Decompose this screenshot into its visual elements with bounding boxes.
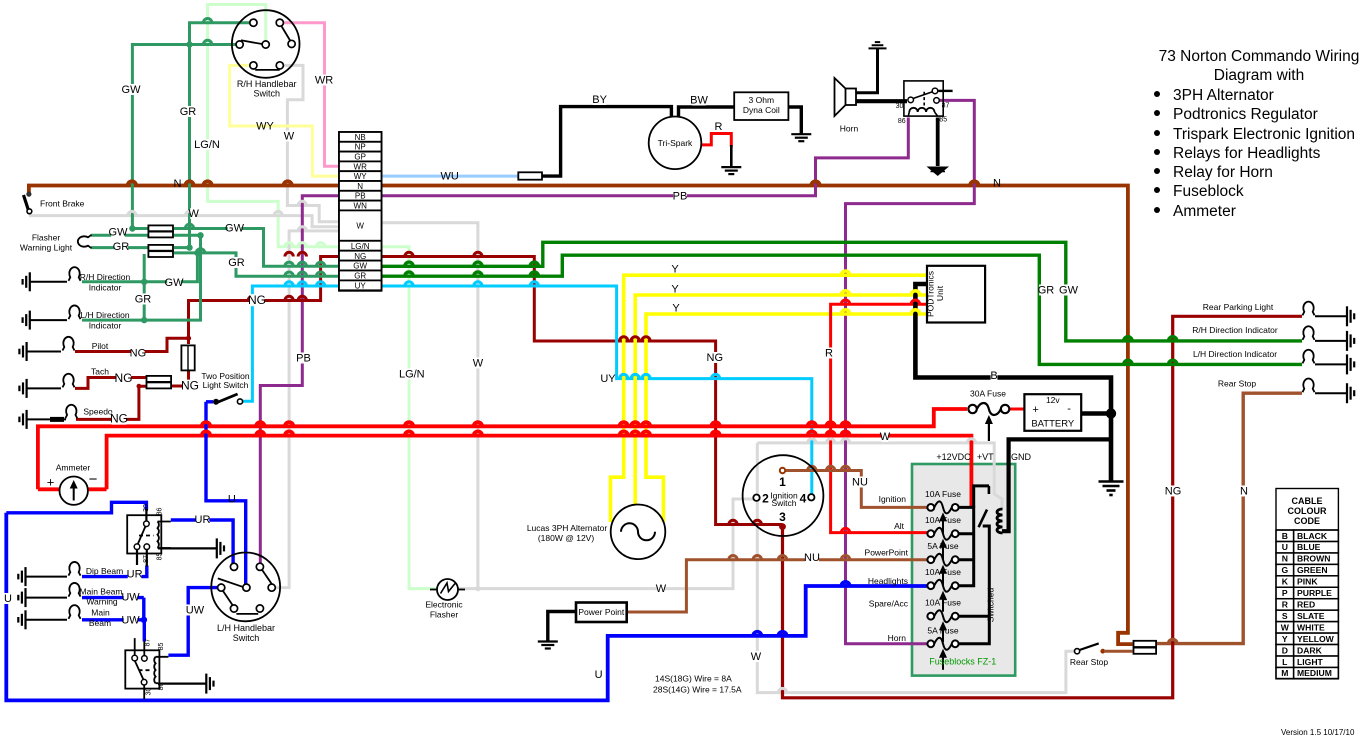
wire GW out to block (174, 229, 339, 267)
svg-text:2: 2 (762, 492, 769, 506)
coil 3 Ohm Dyna (734, 92, 788, 120)
svg-text:N: N (1282, 554, 1288, 564)
svg-text:5A Fuse: 5A Fuse (927, 541, 958, 551)
svg-text:Horn: Horn (888, 633, 907, 643)
svg-text:GR: GR (1038, 285, 1055, 297)
svg-text:Flasher: Flasher (32, 233, 61, 243)
svg-text:UY: UY (600, 373, 616, 385)
label UR lbl2 (128, 568, 142, 579)
svg-text:Podtronics Regulator: Podtronics Regulator (1173, 106, 1318, 123)
label W vert lbl (753, 651, 760, 662)
label B lbl (991, 370, 998, 381)
svg-text:GR: GR (113, 241, 130, 253)
junction rect4 drop bottom (141, 317, 147, 323)
ground gnd relay2 (206, 674, 213, 694)
label GR rear lbl (1039, 284, 1053, 295)
svg-text:Indicator: Indicator (89, 321, 122, 331)
label NU ign lbl (852, 476, 866, 487)
label UW lbl2 (124, 614, 138, 625)
svg-text:10A Fuse: 10A Fuse (925, 598, 961, 608)
wire U main bus (6, 513, 929, 701)
wire rear stop light ground lead (1315, 392, 1347, 394)
horn speaker (835, 78, 857, 116)
wire NG ignition3 bottom bus (783, 316, 1303, 698)
svg-text:10A Fuse: 10A Fuse (925, 515, 961, 525)
svg-text:Version 1.5 10/17/10: Version 1.5 10/17/10 (1281, 728, 1355, 737)
svg-text:R/H Direction: R/H Direction (80, 272, 131, 282)
fuseblock bus wiring (959, 486, 990, 644)
wire WR (283, 23, 339, 167)
svg-text:BW: BW (690, 95, 708, 107)
svg-text:W: W (284, 131, 295, 143)
wire UW lh switch to relay2 (168, 588, 219, 656)
label NU long lbl (805, 552, 819, 563)
relay R1 pin labels (143, 504, 164, 563)
label W brake lbl (190, 208, 197, 219)
svg-text:M: M (1281, 668, 1288, 678)
wire GR flasher (91, 246, 148, 249)
svg-text:Switched: Switched (986, 587, 996, 622)
lamp L/H direction indicator (69, 305, 81, 319)
power point socket (576, 603, 627, 623)
label GW flasher lbl (111, 226, 125, 237)
wire Y3 (646, 314, 927, 522)
ground gnd horn (869, 42, 887, 48)
svg-text:DARK: DARK (1297, 645, 1323, 655)
svg-text:L/H Direction Indicator: L/H Direction Indicator (1193, 349, 1277, 359)
wire UY block to ignition4 (382, 286, 812, 494)
cable colour code table (1276, 489, 1338, 679)
wire R pod to alt fuse (831, 304, 929, 532)
wire GW row bus (382, 242, 1303, 341)
svg-text:85: 85 (157, 553, 164, 561)
wire LG/N handlebar (208, 5, 339, 247)
wire GR handlebar top (190, 23, 251, 246)
svg-text:3 Ohm: 3 Ohm (749, 95, 775, 105)
wire R ammeter plus (38, 487, 60, 491)
svg-text:Light Switch: Light Switch (203, 380, 249, 390)
label WR lbl (317, 74, 331, 85)
svg-text:BLUE: BLUE (1297, 542, 1321, 552)
svg-text:NG: NG (110, 412, 128, 426)
svg-text:G: G (1281, 565, 1288, 575)
wire R trispark (701, 134, 731, 148)
label U left lbl (4, 593, 11, 604)
wire R bus1 ammeter to 30A fuse (38, 409, 967, 489)
svg-text:12v: 12v (1046, 395, 1060, 405)
relay horn (904, 81, 943, 116)
svg-text:PURPLE: PURPLE (1297, 588, 1332, 598)
svg-text:N: N (357, 182, 363, 191)
wire GW out rect2 (174, 234, 201, 237)
wire UW main beam (82, 618, 144, 621)
svg-text:NG: NG (130, 348, 147, 360)
svg-text:GR: GR (354, 272, 366, 281)
svg-text:+12VDC: +12VDC (936, 452, 971, 462)
svg-text:LIGHT: LIGHT (1297, 657, 1324, 667)
wire W down to rear stop (757, 443, 1076, 693)
wire W block to flasher line (382, 223, 478, 590)
svg-text:L: L (1282, 657, 1287, 667)
lamp rear R/H direction indicator (1303, 326, 1315, 340)
fuse 30A main (968, 403, 1009, 415)
relay horn pin labels (896, 103, 950, 126)
wire B warn (26, 597, 68, 599)
ground gnd rear stop light (1347, 383, 1354, 403)
svg-text:86: 86 (158, 683, 165, 691)
svg-text:WU: WU (441, 171, 459, 183)
switch two position light (206, 400, 213, 403)
wire B coil to ground (788, 107, 801, 134)
ground gnd rear L/H direction indicator (1347, 354, 1354, 374)
ground gnd warn (18, 588, 25, 607)
lamp speedo lamp (65, 405, 77, 419)
svg-text:D: D (1282, 645, 1288, 655)
svg-text:W: W (751, 651, 762, 663)
svg-text:W: W (189, 208, 200, 220)
svg-text:PB: PB (355, 192, 366, 201)
label LG/N (193, 139, 220, 150)
svg-text:N: N (174, 178, 182, 190)
svg-text:Warning: Warning (86, 597, 118, 607)
label NG speedo lbl (112, 413, 127, 425)
wire hops hops (128, 181, 979, 185)
terminal block TB1 (339, 132, 382, 291)
label UW lbl3 (186, 604, 200, 615)
svg-text:87: 87 (143, 555, 150, 563)
arrow arrow Alt (939, 539, 947, 560)
svg-text:Beam: Beam (89, 618, 111, 628)
wire hops hops (841, 300, 919, 304)
svg-text:Tri-Spark: Tri-Spark (658, 138, 693, 148)
wire UR dip beam (82, 566, 147, 577)
svg-text:Fuseblock: Fuseblock (1173, 183, 1244, 200)
junction GR out tee (194, 250, 200, 256)
ground battery (1099, 482, 1124, 496)
svg-text:GR: GR (228, 257, 245, 269)
label PB lbl1 (297, 352, 311, 363)
wire B tach (27, 387, 61, 389)
svg-text:WR: WR (354, 162, 368, 171)
junction GR x GW (186, 41, 192, 47)
svg-text:P: P (1282, 588, 1288, 598)
wire B lh ind (30, 319, 67, 321)
svg-text:GW: GW (109, 227, 129, 239)
label GR left (181, 106, 195, 117)
svg-text:Front Brake: Front Brake (40, 199, 85, 209)
svg-text:5A Fuse: 5A Fuse (927, 625, 958, 635)
svg-text:Power Point: Power Point (578, 607, 624, 617)
wire hops hops (841, 582, 849, 586)
switch R/H handlebar (232, 10, 300, 78)
svg-text:R/H Direction Indicator: R/H Direction Indicator (1192, 325, 1278, 335)
svg-text:GW: GW (122, 84, 142, 96)
svg-text:W: W (880, 431, 891, 443)
ground gnd lh ind (23, 311, 30, 330)
connector rear connector (1134, 641, 1157, 654)
label LG/N lower (398, 368, 425, 379)
ground gnd main (18, 610, 25, 629)
svg-text:Rear Parking Light: Rear Parking Light (1203, 302, 1274, 312)
label N rear lbl (1241, 485, 1248, 496)
svg-text:PB: PB (296, 353, 311, 365)
lamp main beam warning lamp (69, 583, 81, 597)
svg-text:RED: RED (1297, 600, 1315, 610)
wire R ammeter minus (88, 487, 107, 491)
wire hops hops (405, 272, 539, 276)
svg-text:WY: WY (354, 172, 368, 181)
svg-text:85: 85 (158, 643, 165, 651)
arrow arrow Horn (939, 649, 947, 670)
wire N rear stop (1157, 393, 1302, 643)
ground gnd rh ind (23, 272, 30, 291)
wire hops hops (778, 688, 786, 692)
wire BW (679, 107, 735, 117)
wire Y1 (611, 275, 928, 522)
svg-text:Relays for Headlights: Relays for Headlights (1173, 145, 1321, 162)
svg-text:NB: NB (355, 133, 366, 142)
relay R1 headlight (dip) (127, 515, 171, 553)
ground gnd tach (19, 379, 26, 398)
ground gnd rear R/H direction indicator (1347, 331, 1354, 351)
svg-text:LG/N: LG/N (194, 139, 220, 151)
svg-text:GW: GW (1059, 285, 1079, 297)
wire hops hops (841, 310, 919, 314)
ground gnd speedo (19, 410, 26, 429)
svg-text:L/H Direction: L/H Direction (80, 310, 129, 320)
ground gnd powerpoint (538, 642, 558, 649)
lamp tach lamp (63, 374, 75, 388)
wire NG block to pin3 (382, 257, 783, 525)
wire UW warning (82, 596, 144, 599)
wire NG tach (75, 378, 146, 389)
wire B battery minus (1081, 414, 1111, 482)
label W lower (475, 357, 482, 368)
svg-text:NU: NU (852, 477, 868, 489)
label UY lbl (601, 373, 615, 384)
label W mid lbl (658, 583, 665, 594)
title block (1154, 48, 1359, 220)
svg-text:N: N (1240, 486, 1248, 498)
svg-text:Warning Light: Warning Light (20, 243, 73, 253)
svg-text:85: 85 (939, 117, 947, 124)
svg-text:NG: NG (1165, 486, 1182, 498)
wire rear L/H direction indicator ground lead (1315, 363, 1347, 365)
svg-text:3: 3 (779, 510, 786, 524)
arrow arrow Ignition (939, 512, 947, 533)
svg-text:U: U (1282, 542, 1288, 552)
connector WU sleeve (518, 172, 542, 179)
svg-text:NP: NP (355, 143, 366, 152)
label BW lbl (692, 94, 706, 105)
label NG rear lbl (1166, 485, 1180, 496)
svg-text:Diagram with: Diagram with (1214, 67, 1304, 84)
terminal block row labels (351, 133, 370, 291)
junction rect4 drop top (141, 279, 147, 285)
svg-text:R: R (715, 121, 723, 133)
wire hops hops (405, 282, 539, 286)
wire hops hops (202, 422, 850, 426)
svg-text:B: B (1282, 531, 1288, 541)
svg-text:YELLOW: YELLOW (1297, 634, 1335, 644)
wire PB row left (260, 196, 339, 566)
wire W bus to fuseblock VT (757, 443, 1002, 509)
wire hops hops (128, 211, 283, 215)
svg-text:Horn: Horn (840, 124, 859, 134)
svg-text:Electronic: Electronic (425, 600, 463, 610)
svg-text:SLATE: SLATE (1297, 611, 1325, 621)
svg-text:30A Fuse: 30A Fuse (970, 389, 1006, 399)
svg-text:GR: GR (180, 106, 197, 118)
svg-text:-: - (1067, 403, 1071, 415)
svg-text:BROWN: BROWN (1297, 554, 1330, 564)
label GW left (124, 84, 138, 95)
wire hops hops (841, 528, 849, 532)
wire WU (382, 175, 519, 178)
svg-text:PB: PB (673, 191, 688, 203)
svg-text:Tach: Tach (91, 367, 109, 377)
label U bottom lbl (595, 669, 602, 680)
svg-text:Ammeter: Ammeter (56, 463, 91, 473)
svg-text:Trispark Electronic Ignition: Trispark Electronic Ignition (1173, 126, 1355, 143)
svg-text:Lucas 3PH Alternator: Lucas 3PH Alternator (527, 523, 607, 533)
ground gnd relay1 (217, 538, 224, 558)
svg-text:GR: GR (135, 294, 152, 306)
fuse fuse Ignition (927, 501, 958, 513)
svg-text:W: W (356, 222, 364, 231)
svg-text:PINK: PINK (1297, 577, 1318, 587)
wire N rear stop switch lead (1104, 650, 1133, 653)
label NG pilot lbl (131, 347, 145, 358)
label GW ind lbl (167, 277, 181, 288)
fuse NG pilot light fuse (181, 345, 194, 370)
wire hops hops (620, 337, 651, 341)
relay inside fuseblock (988, 486, 991, 494)
wire hops hops (298, 201, 306, 231)
lamp pilot lamp (63, 337, 75, 351)
wire P horn relay to fuse (846, 100, 975, 643)
svg-text:W: W (656, 583, 667, 595)
svg-text:R/H Handlebar: R/H Handlebar (237, 79, 297, 89)
label NG conn lbl (183, 380, 198, 392)
wire R bus2 ammeter to fuseblock (107, 436, 972, 507)
wire rear parking light ground lead (1315, 315, 1347, 317)
svg-text:Switch: Switch (233, 633, 260, 643)
junction N front brake top (26, 192, 31, 197)
wire B gnd to fuseblock (1002, 439, 1111, 531)
svg-text:Y: Y (672, 303, 680, 315)
svg-text:Spare/Acc: Spare/Acc (869, 599, 909, 609)
relay R2 headlight (main) (125, 638, 168, 699)
arrow arrow Headlights (939, 591, 947, 612)
label NG mid lbl (708, 352, 722, 363)
ground gnd pilot (19, 342, 26, 361)
svg-text:Main Beam: Main Beam (80, 587, 123, 597)
wire hops hops (808, 466, 850, 470)
wire W flasher to ignition (458, 499, 757, 589)
svg-text:U: U (228, 494, 236, 506)
svg-text:GW: GW (353, 262, 367, 271)
svg-text:BLACK: BLACK (1297, 531, 1328, 541)
fuse fuse PowerPoint (927, 554, 958, 566)
svg-text:L/H Handlebar: L/H Handlebar (217, 623, 275, 633)
svg-text:NG: NG (354, 252, 366, 261)
wire B relay1 85 link (146, 549, 148, 567)
ground gnd coil (791, 134, 811, 141)
svg-text:UR: UR (195, 514, 211, 526)
svg-text:30: 30 (896, 103, 904, 110)
arrow arrow PowerPoint (939, 565, 947, 586)
wire hops hops (285, 262, 325, 266)
wire W front brake (29, 216, 339, 227)
wire W handlebar (280, 65, 339, 221)
svg-text:Flasher: Flasher (430, 610, 459, 620)
svg-text:NG: NG (181, 379, 199, 393)
svg-text:30: 30 (143, 504, 150, 512)
wire BY (542, 107, 671, 177)
svg-text:Y: Y (1282, 634, 1288, 644)
wire rear R/H direction indicator ground lead (1315, 340, 1347, 342)
wire GR lh indicator (82, 235, 201, 320)
fuse fuse Alt (927, 528, 958, 540)
wire GW flasher (91, 234, 148, 237)
svg-text:Headlights: Headlights (868, 576, 908, 586)
svg-text:WR: WR (315, 75, 333, 87)
wire NG fuse to connector (172, 371, 189, 386)
wire hops hops (185, 18, 212, 252)
wire hops hops (285, 272, 325, 276)
wire PB bus (382, 118, 909, 196)
connector GW pair (148, 225, 173, 237)
wire NU powerpoint (628, 560, 929, 612)
svg-text:+: + (1032, 404, 1038, 416)
label GW conn lbl (228, 222, 242, 233)
svg-text:NG: NG (115, 371, 133, 385)
wire UY row to switch (242, 286, 339, 401)
wire hops hops (753, 632, 787, 636)
wire B horn to ground (856, 48, 878, 92)
label GR flasher lbl (114, 241, 128, 252)
wire hops hops (248, 296, 306, 300)
fuse fuse Spare/Acc (927, 610, 958, 622)
svg-text:UW: UW (121, 592, 140, 604)
svg-text:87: 87 (145, 639, 152, 647)
arrow 30A arrow (985, 415, 993, 441)
svg-text:LG/N: LG/N (351, 242, 370, 251)
svg-text:Indicator: Indicator (89, 283, 122, 293)
wire GR out rect3 (174, 246, 190, 249)
wire hops hops (729, 520, 762, 524)
connector GR pair (148, 245, 173, 257)
wire UR relay1 to lh switch (171, 520, 233, 565)
svg-text:WHITE: WHITE (1297, 622, 1325, 632)
svg-text:30: 30 (146, 688, 153, 696)
wire NG row to ignition (189, 257, 340, 345)
wire B pod (915, 284, 1111, 414)
ground horn relay 85 (927, 167, 950, 177)
lamp rear L/H direction indicator (1303, 350, 1315, 364)
svg-text:S: S (1282, 611, 1288, 621)
switch ignition (743, 455, 824, 536)
label NG tach lbl (116, 372, 131, 384)
fuseblock FZ-1 box (912, 464, 1015, 676)
wire B speedo (27, 418, 66, 420)
fuse fuse Headlights (927, 580, 958, 592)
wire B powerpoint gnd (548, 612, 576, 642)
svg-text:NG: NG (707, 352, 724, 364)
ground gnd dip (18, 567, 25, 586)
svg-text:Ignition: Ignition (879, 494, 907, 504)
